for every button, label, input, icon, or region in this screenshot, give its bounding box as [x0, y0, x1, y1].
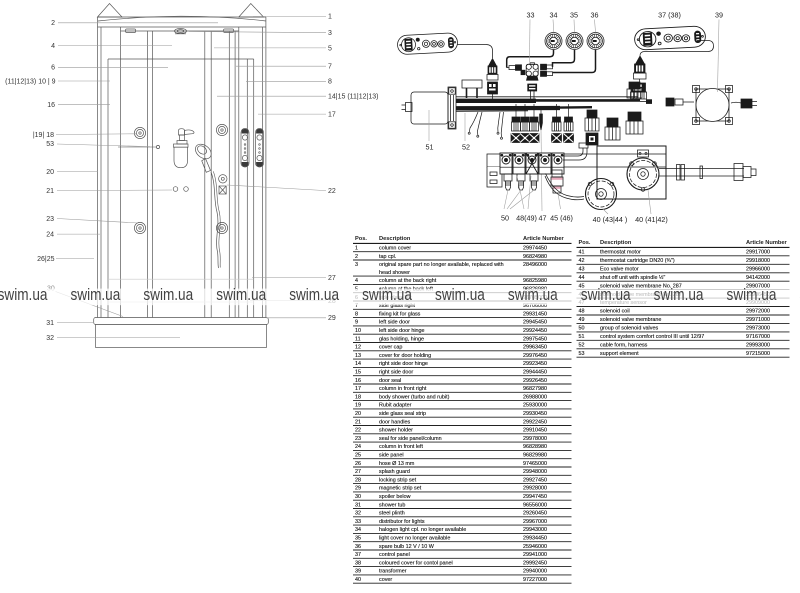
leader line callout 53	[57, 144, 150, 147]
solenoid valve block 4 (pos 48/49)	[539, 153, 551, 174]
wire sensor 35 to distributor	[553, 50, 575, 67]
svg-text:14: 14	[355, 361, 361, 367]
svg-text:97227000: 97227000	[523, 577, 547, 583]
svg-text:Rubit adapter: Rubit adapter	[379, 403, 412, 409]
svg-text:control panel: control panel	[379, 552, 410, 558]
body jet lower right (pos 18/19)	[216, 222, 227, 233]
hand shower (pos 22)	[193, 141, 215, 172]
watermark texts swim.ua	[0, 285, 800, 304]
svg-text:29917000: 29917000	[746, 250, 770, 256]
parts table rows	[355, 246, 547, 584]
connector under distributor	[528, 84, 537, 99]
svg-text:halogen light cpl. no longer a: halogen light cpl. no longer available	[379, 527, 466, 533]
svg-text:27: 27	[328, 275, 336, 282]
leader line callout 21	[57, 189, 172, 192]
solenoid valve block 5 (pos 48/49)	[552, 153, 564, 174]
solenoid plug connector A3	[529, 104, 539, 143]
svg-text:29992450: 29992450	[523, 560, 547, 566]
watermark band	[0, 289, 800, 306]
svg-text:29971000: 29971000	[746, 317, 770, 323]
temperature sensor (pos 47)	[540, 107, 543, 130]
svg-text:25: 25	[355, 453, 361, 459]
svg-text:24: 24	[46, 232, 54, 239]
shower tub rim (pos 29/31)	[94, 318, 269, 325]
soap dispenser	[174, 129, 195, 168]
svg-text:29934450: 29934450	[523, 536, 547, 542]
hose to pump	[545, 174, 584, 200]
outlet nozzle 1	[504, 174, 512, 190]
svg-text:29978000: 29978000	[523, 436, 547, 442]
motor 39 left connector	[666, 98, 694, 106]
svg-text:25946000: 25946000	[523, 544, 547, 550]
head shower (pos 3)	[175, 28, 187, 33]
svg-text:spare bulb 12 V / 10 W: spare bulb 12 V / 10 W	[379, 544, 435, 550]
control panel left (pos 37)	[397, 33, 458, 55]
distributor right plug upper	[541, 64, 553, 69]
svg-text:29927450: 29927450	[523, 477, 547, 483]
svg-text:36: 36	[591, 11, 599, 20]
svg-text:52: 52	[462, 143, 470, 152]
svg-text:Article Number: Article Number	[523, 236, 565, 242]
svg-text:left side door hinge: left side door hinge	[379, 328, 425, 334]
svg-text:29910450: 29910450	[523, 428, 547, 434]
svg-text:12: 12	[355, 345, 361, 351]
svg-text:29: 29	[355, 486, 361, 492]
outlet pipe	[659, 164, 756, 181]
body jet upper left (pos 18/19)	[134, 127, 145, 138]
svg-text:96556000: 96556000	[523, 502, 547, 508]
wire: panel 37 loop to connector	[640, 41, 714, 56]
wire X2 to X3	[639, 79, 641, 83]
svg-text:3: 3	[355, 262, 358, 268]
svg-text:17: 17	[328, 112, 336, 119]
svg-text:26|25: 26|25	[37, 256, 54, 263]
glass holding strip (pos 11)	[228, 31, 230, 318]
wire sensor 34 to distributor	[507, 50, 554, 68]
svg-text:29930450: 29930450	[523, 411, 547, 417]
svg-text:29928000: 29928000	[523, 486, 547, 492]
svg-text:thermostat motor: thermostat motor	[600, 250, 641, 256]
svg-text:swim.ua: swim.ua	[581, 285, 631, 304]
svg-text:29963450: 29963450	[523, 345, 547, 351]
svg-text:52: 52	[579, 342, 585, 348]
svg-text:7: 7	[328, 64, 332, 71]
svg-text:26: 26	[355, 461, 361, 467]
leader line callout 19	[56, 133, 136, 136]
svg-text:column in front right: column in front right	[379, 386, 427, 392]
svg-text:cover for door holding: cover for door holding	[379, 353, 431, 359]
svg-text:5: 5	[328, 45, 332, 52]
svg-text:21: 21	[355, 419, 361, 425]
parts table header	[579, 240, 788, 246]
svg-text:8: 8	[328, 79, 332, 86]
pipe elbows from plate	[563, 143, 588, 160]
shower hose (pos 26)	[211, 172, 219, 268]
svg-text:29974450: 29974450	[523, 246, 547, 252]
parts table rows	[579, 250, 770, 357]
svg-text:splash guard: splash guard	[379, 469, 410, 475]
svg-text:96824980: 96824980	[523, 254, 547, 260]
svg-text:solenoid valve membrane: solenoid valve membrane	[600, 317, 661, 323]
svg-text:original spare part no longer: original spare part no longer available,…	[379, 262, 504, 268]
svg-text:45 (46): 45 (46)	[550, 214, 573, 223]
svg-text:Description: Description	[600, 240, 632, 246]
leader schematic 35	[573, 20, 576, 33]
leader line callout 10	[58, 80, 110, 82]
side glass panel (pos 6/7)	[108, 58, 254, 60]
svg-text:2: 2	[355, 254, 358, 260]
svg-text:swim.ua: swim.ua	[362, 285, 412, 304]
svg-text:29260450: 29260450	[523, 511, 547, 517]
leader 50	[504, 190, 534, 209]
svg-text:41: 41	[579, 250, 585, 256]
svg-text:coloured cover for contol pane: coloured cover for contol panel	[379, 560, 453, 566]
cable harness (pos 52)	[456, 97, 652, 111]
svg-text:shower holder: shower holder	[379, 428, 413, 434]
svg-text:38: 38	[355, 560, 361, 566]
roof fitting right	[224, 29, 234, 33]
leader line callout 26	[56, 257, 94, 259]
svg-text:22: 22	[355, 428, 361, 434]
svg-text:23: 23	[46, 216, 54, 223]
cable connector X2	[634, 56, 647, 79]
solenoid valve block 2 (pos 48/49)	[513, 153, 525, 174]
svg-text:shower tub: shower tub	[379, 502, 405, 508]
svg-text:34: 34	[355, 527, 361, 533]
column front right (pos 17)	[238, 27, 240, 318]
leader 40(41|42)	[648, 190, 651, 214]
svg-text:swim.ua: swim.ua	[654, 285, 704, 304]
svg-text:Description: Description	[379, 236, 411, 242]
svg-text:33: 33	[527, 11, 535, 20]
control panel pos 37 (38)	[634, 26, 706, 51]
leader schematic 39	[718, 20, 720, 93]
shower holder	[219, 175, 227, 194]
svg-text:light cover no longer availabl: light cover no longer available	[379, 536, 450, 542]
svg-text:25930000: 25930000	[523, 403, 547, 409]
svg-text:8: 8	[355, 311, 358, 317]
wall handle strip inner	[241, 129, 249, 168]
svg-text:cover cap: cover cap	[379, 345, 402, 351]
svg-text:solenoid coil: solenoid coil	[600, 309, 630, 315]
svg-text:37 (38): 37 (38)	[658, 10, 681, 19]
outlet nozzle 2	[517, 174, 525, 190]
svg-text:29940000: 29940000	[523, 569, 547, 575]
leader line callout 31	[57, 321, 94, 323]
svg-text:39: 39	[715, 10, 723, 19]
svg-text:9: 9	[355, 320, 358, 326]
svg-text:4: 4	[355, 278, 358, 284]
leader line callout 7	[236, 65, 326, 67]
svg-text:support element: support element	[600, 351, 639, 357]
svg-text:19: 19	[355, 403, 361, 409]
svg-text:53: 53	[579, 351, 585, 357]
leader line callout 23	[57, 219, 138, 224]
svg-text:right side door hinge: right side door hinge	[379, 361, 428, 367]
wire: left panel to connector	[458, 45, 493, 59]
svg-text:50: 50	[579, 326, 585, 332]
svg-text:51: 51	[426, 143, 434, 152]
svg-text:29918000: 29918000	[746, 258, 770, 264]
svg-text:swim.ua: swim.ua	[435, 285, 485, 304]
svg-text:tap cpl.: tap cpl.	[379, 254, 396, 260]
svg-text:1: 1	[355, 246, 358, 252]
solenoid valve block 1 (pos 48/49)	[500, 153, 512, 174]
svg-text:column at the back right: column at the back right	[379, 278, 437, 284]
solenoid plug connector A2	[520, 104, 530, 143]
leader line callout 17	[258, 113, 326, 115]
leader line callout 5	[214, 47, 326, 49]
svg-text:|19| 18: |19| 18	[33, 132, 54, 139]
svg-text:left side door: left side door	[379, 320, 410, 326]
svg-text:16: 16	[355, 378, 361, 384]
svg-text:31: 31	[46, 320, 54, 327]
leader schematic 33	[529, 20, 532, 63]
solenoid plug connector A1	[511, 104, 521, 143]
left column cap	[98, 4, 123, 18]
svg-text:15: 15	[355, 370, 361, 376]
svg-text:side glass seal strip: side glass seal strip	[379, 411, 426, 417]
svg-text:swim.ua: swim.ua	[0, 285, 48, 304]
svg-text:29923450: 29923450	[523, 361, 547, 367]
motor 39 cable and plug	[731, 99, 757, 108]
outlet nozzle 3	[530, 174, 538, 190]
leader line callout 6	[58, 66, 168, 68]
svg-text:30: 30	[355, 494, 361, 500]
svg-text:29: 29	[328, 315, 336, 322]
svg-text:39: 39	[355, 569, 361, 575]
leader line callout 1	[253, 16, 326, 18]
svg-text:swim.ua: swim.ua	[508, 285, 558, 304]
svg-text:28496000: 28496000	[523, 262, 547, 268]
svg-text:44: 44	[579, 275, 585, 281]
svg-text:36: 36	[355, 544, 361, 550]
connector stack E lower	[626, 112, 643, 134]
Eco valve motor (pos 39)	[693, 86, 733, 125]
svg-text:swim.ua: swim.ua	[143, 285, 193, 304]
svg-text:29976450: 29976450	[523, 353, 547, 359]
leader 48(49)	[517, 176, 531, 209]
svg-text:swim.ua: swim.ua	[727, 285, 777, 304]
leader 40(43|44)	[603, 209, 608, 214]
leader line callout 20	[57, 170, 98, 172]
svg-text:20: 20	[355, 411, 361, 417]
connector stack D	[605, 118, 620, 140]
svg-text:48: 48	[579, 309, 585, 315]
svg-text:42: 42	[579, 258, 585, 264]
svg-text:40 (41|42): 40 (41|42)	[635, 215, 668, 224]
svg-text:29967000: 29967000	[523, 519, 547, 525]
body jet upper right (pos 18/19)	[216, 124, 227, 135]
svg-text:2: 2	[51, 20, 55, 27]
svg-text:29947450: 29947450	[523, 494, 547, 500]
right column cap	[239, 4, 264, 18]
svg-text:group of solenoid valves: group of solenoid valves	[600, 326, 658, 332]
svg-text:control system comfort control: control system comfort control III until…	[600, 334, 704, 340]
svg-text:96829980: 96829980	[523, 453, 547, 459]
svg-text:97215000: 97215000	[746, 351, 770, 357]
distributor left plug	[507, 65, 522, 71]
thermostat 40 (43|44)	[586, 179, 617, 210]
svg-text:40 (43|44 ): 40 (43|44 )	[593, 215, 628, 224]
wire: connector X1 to harness	[492, 94, 494, 99]
svg-text:21: 21	[46, 188, 54, 195]
solenoid plug connector B1	[552, 104, 562, 143]
leader line callout 24	[57, 233, 100, 235]
svg-text:34: 34	[550, 11, 558, 20]
door bottom rail	[108, 278, 254, 280]
svg-text:swim.ua: swim.ua	[70, 285, 120, 304]
svg-text:1: 1	[328, 13, 332, 20]
svg-text:17: 17	[355, 386, 361, 392]
svg-text:51: 51	[579, 334, 585, 340]
cable connector X3	[631, 83, 647, 99]
svg-text:33: 33	[355, 519, 361, 525]
light sensor (pos 35)	[566, 33, 583, 50]
leader schematic 34	[552, 20, 555, 33]
leader line callout 32	[57, 337, 180, 339]
wire sensor 36 to distributor	[553, 50, 596, 73]
leader line callout 16	[58, 104, 110, 106]
svg-text:29975450: 29975450	[523, 336, 547, 342]
svg-text:6: 6	[51, 65, 55, 72]
svg-text:29972000: 29972000	[746, 309, 770, 315]
svg-text:23: 23	[355, 436, 361, 442]
svg-text:glas holding, hinge: glas holding, hinge	[379, 336, 424, 342]
svg-text:29966000: 29966000	[746, 266, 770, 272]
svg-text:29922450: 29922450	[523, 419, 547, 425]
svg-text:27: 27	[355, 469, 361, 475]
svg-text:13: 13	[355, 353, 361, 359]
leader 52	[464, 113, 466, 141]
svg-text:29993000: 29993000	[746, 342, 770, 348]
svg-text:4: 4	[51, 43, 55, 50]
svg-text:side panel: side panel	[379, 453, 404, 459]
roof canopy (pos 1/2)	[98, 16, 266, 21]
solenoid valve block 3 (pos 48/49)	[526, 153, 538, 174]
parts table header	[355, 236, 565, 242]
svg-text:spoiler below: spoiler below	[379, 494, 411, 500]
svg-text:40: 40	[355, 577, 361, 583]
svg-text:53: 53	[46, 141, 54, 148]
svg-text:door handles: door handles	[379, 419, 410, 425]
svg-text:swim.ua: swim.ua	[289, 285, 339, 304]
svg-text:26988000: 26988000	[523, 394, 547, 400]
svg-text:96828980: 96828980	[523, 444, 547, 450]
svg-text:locking strip set: locking strip set	[379, 477, 417, 483]
leader 47	[541, 130, 542, 211]
distributor aux plug	[521, 70, 525, 75]
connector stack E upper	[627, 82, 642, 98]
svg-text:29931450: 29931450	[523, 311, 547, 317]
leader line callout 14	[217, 95, 326, 97]
svg-text:29924450: 29924450	[523, 328, 547, 334]
svg-text:distributor for lights: distributor for lights	[379, 519, 425, 525]
column front left (pos 24)	[97, 17, 99, 318]
svg-text:29926450: 29926450	[523, 378, 547, 384]
leader 51	[428, 110, 430, 141]
svg-text:24: 24	[355, 444, 361, 450]
svg-text:29973000: 29973000	[746, 326, 770, 332]
svg-text:29944450: 29944450	[523, 370, 547, 376]
svg-text:hose Ø 13 mm: hose Ø 13 mm	[379, 461, 415, 467]
svg-text:50: 50	[501, 214, 509, 223]
roof fitting left	[126, 29, 136, 33]
junction box	[462, 80, 482, 98]
leader line callout 28	[250, 300, 326, 302]
svg-text:10: 10	[355, 328, 361, 334]
svg-text:Article Number: Article Number	[746, 240, 788, 246]
svg-text:transformer: transformer	[379, 569, 407, 575]
svg-text:31: 31	[355, 502, 361, 508]
body jet lower left (pos 18/19)	[134, 222, 145, 233]
lower rail	[108, 301, 254, 303]
leader line callout 29	[266, 317, 326, 319]
svg-text:steel plinth: steel plinth	[379, 511, 405, 517]
svg-text:magnetic strip set: magnetic strip set	[379, 486, 422, 492]
solenoid plug connector B2	[564, 104, 574, 143]
svg-text:96827980: 96827980	[523, 386, 547, 392]
cable connector X1	[487, 59, 498, 95]
door handle knobs (pos 21)	[173, 187, 188, 192]
svg-text:97465000: 97465000	[523, 461, 547, 467]
svg-text:cover: cover	[379, 577, 392, 583]
transformer (pos 51)	[402, 87, 457, 129]
solenoid valve membrane fitting (pos 45/46)	[551, 170, 563, 193]
svg-text:35: 35	[570, 11, 578, 20]
pink seal rings	[552, 178, 563, 189]
svg-text:29943000: 29943000	[523, 527, 547, 533]
svg-text:14|15 (11|12|13): 14|15 (11|12|13)	[328, 94, 378, 101]
svg-text:37: 37	[355, 552, 361, 558]
leader line callout 27	[252, 277, 326, 279]
svg-text:47: 47	[539, 214, 547, 223]
svg-text:32: 32	[46, 335, 54, 342]
distributor right plug lower	[541, 71, 553, 76]
solenoid valve group mounting plate (pos 50)	[487, 154, 666, 187]
svg-text:22: 22	[328, 188, 336, 195]
svg-text:head shower: head shower	[379, 270, 410, 276]
svg-text:door seal: door seal	[379, 378, 401, 384]
svg-text:11: 11	[355, 336, 361, 342]
svg-text:Pos.: Pos.	[355, 236, 367, 242]
svg-text:seal for side panel/column: seal for side panel/column	[379, 436, 442, 442]
svg-text:fixing kit for glass: fixing kit for glass	[379, 311, 421, 317]
svg-text:48(49): 48(49)	[516, 214, 537, 223]
svg-text:97167000: 97167000	[746, 334, 770, 340]
parts table rules	[353, 252, 572, 584]
valve assembly frame	[597, 146, 666, 199]
svg-text:18: 18	[355, 394, 361, 400]
right door profile (pos 14/15)	[204, 31, 206, 318]
svg-text:20: 20	[46, 169, 54, 176]
leader 45(46)	[558, 193, 561, 209]
shower tub body / steel plinth (pos 32)	[96, 325, 267, 348]
svg-text:3: 3	[328, 30, 332, 37]
svg-text:Eco valve motor: Eco valve motor	[600, 266, 639, 272]
loose wires with hooks	[468, 112, 503, 139]
leader line callout 4	[58, 45, 172, 47]
svg-text:96825980: 96825980	[523, 278, 547, 284]
seal strip (pos 20)	[246, 59, 248, 318]
svg-text:thermostat cartridge DN20 (¾"): thermostat cartridge DN20 (¾")	[600, 258, 675, 264]
leader line callout 3	[189, 32, 326, 33]
shut off unit / thermostat 40 (41|42)	[627, 150, 659, 191]
svg-text:swim.ua: swim.ua	[216, 285, 266, 304]
svg-text:49: 49	[579, 317, 585, 323]
svg-text:35: 35	[355, 536, 361, 542]
svg-text:(11|12|13) 10 | 9: (11|12|13) 10 | 9	[5, 78, 56, 85]
